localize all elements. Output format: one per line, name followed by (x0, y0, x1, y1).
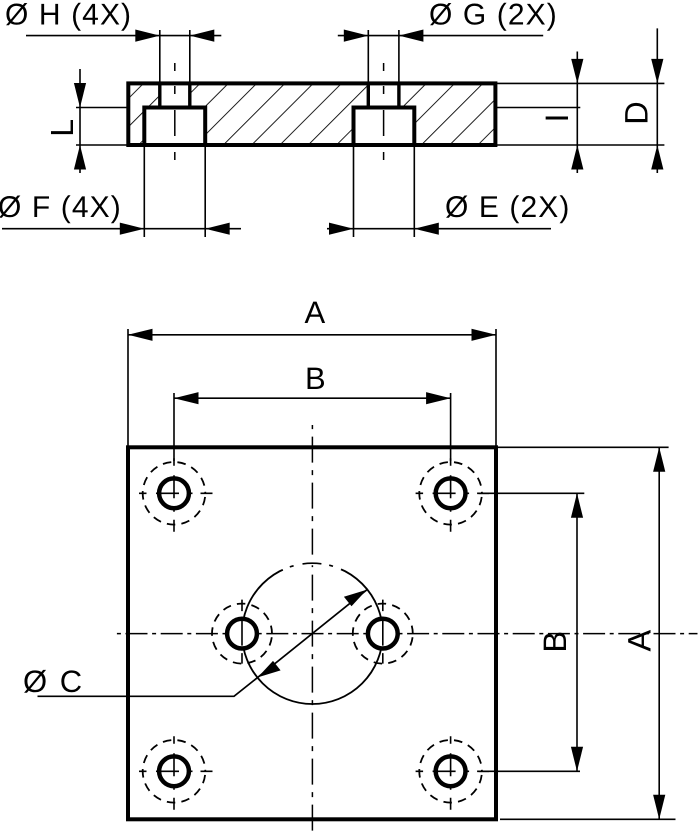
dim I line (576, 52, 578, 174)
svg-text:Ø G (2X): Ø G (2X) (429, 0, 558, 32)
diameter arrow lower left (258, 661, 281, 678)
dim G arrows (344, 30, 369, 42)
dim F line (2, 228, 241, 230)
dim F extension lines (144, 145, 205, 237)
plate cross-section hatched body (128, 83, 495, 145)
corner hole bottom-left (139, 736, 213, 810)
svg-text:B: B (305, 361, 326, 396)
dim H line (26, 35, 221, 37)
dim D line (656, 28, 658, 173)
corner hole bottom-right (416, 736, 490, 810)
dim A (top) line (128, 334, 496, 336)
right hole bore cutout (white) (368, 83, 399, 107)
plate outline (plan) (128, 447, 496, 819)
dim L arrows (74, 83, 86, 108)
dim E arrows (329, 223, 354, 235)
left counterbore edges (144, 108, 205, 146)
dim H extension lines (160, 30, 190, 83)
middle hole left (212, 600, 272, 664)
bolt circle (center circle) (242, 563, 383, 704)
svg-text:A: A (304, 295, 325, 330)
dim H arrows (135, 30, 160, 42)
diameter arrow upper right (344, 590, 367, 607)
dim A (right) arrows (653, 447, 665, 472)
right bore edges (368, 83, 399, 107)
extension line plate bottom right (495, 144, 664, 146)
vertical centerline (plan) (311, 425, 313, 833)
svg-text:Ø F (4X): Ø F (4X) (0, 191, 122, 224)
svg-text:Ø C: Ø C (23, 664, 84, 699)
svg-text:B: B (537, 631, 573, 653)
svg-text:Ø E (2X): Ø E (2X) (445, 191, 571, 224)
leader line for C (38, 677, 258, 696)
dim G extension lines (368, 30, 399, 83)
bolt circle top arc dash-dot (303, 562, 322, 565)
svg-text:L: L (44, 119, 80, 137)
dim E line (327, 228, 551, 230)
plate cross-section outline (128, 83, 495, 145)
left hole bore cutout (white) (160, 83, 190, 107)
dim A (right) line (658, 447, 660, 819)
centerline right hole (section) (383, 63, 385, 160)
dim E extension lines (354, 145, 415, 237)
centerline left hole (section) (174, 63, 176, 160)
corner hole top-right (416, 458, 490, 532)
dim B (right) extension lines (479, 493, 585, 771)
dim D arrows (651, 59, 663, 84)
extension line counterbore top right (495, 107, 580, 109)
dim F arrows (120, 223, 145, 235)
dim A (right) extension lines (498, 447, 676, 819)
dim G line (338, 35, 543, 37)
right counterbore edges (354, 108, 415, 146)
svg-text:Ø H (4X): Ø H (4X) (5, 0, 132, 32)
dim B (right) arrows (571, 493, 583, 518)
bolt circle top arc erase (283, 563, 341, 569)
dim A (top) extension lines (128, 329, 496, 447)
svg-text:D: D (619, 101, 655, 124)
dim L extension lines (76, 108, 128, 146)
dim B (top) extension lines (174, 393, 451, 461)
horizontal centerline (plan) (115, 633, 698, 635)
left bore edges (160, 83, 190, 107)
dim A (top) arrows (128, 329, 153, 341)
diameter indicator line (258, 590, 367, 678)
svg-text:A: A (622, 630, 658, 652)
svg-text:I: I (539, 113, 575, 122)
corner hole top-left (139, 458, 213, 532)
dim L line (79, 69, 81, 173)
dim B (top) arrows (174, 392, 199, 404)
dim B (top) line (174, 397, 451, 399)
middle hole right (353, 600, 413, 664)
dim B (right) line (576, 493, 578, 771)
left counterbore cutout (white) (144, 108, 205, 146)
dim I arrows (571, 59, 583, 84)
right counterbore cutout (white) (354, 108, 415, 146)
extension line plate top right (495, 82, 664, 84)
